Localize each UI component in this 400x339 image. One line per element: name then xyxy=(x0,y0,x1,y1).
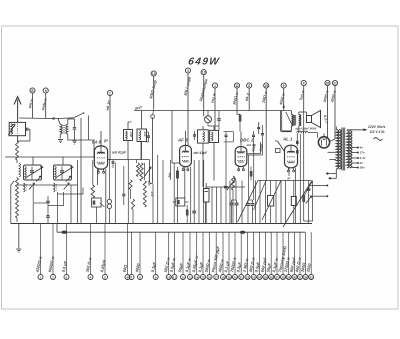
wire plate up xyxy=(100,131,102,146)
electrolytic E1 xyxy=(203,189,209,203)
terminal bottom 2 xyxy=(51,275,56,280)
electrolytic pair 1 xyxy=(229,202,233,204)
wire xyxy=(16,218,18,222)
svg-text:27: 27 xyxy=(275,275,279,279)
T1 top leads xyxy=(53,119,61,125)
diode plates xyxy=(237,151,239,153)
output transformer T4 xyxy=(292,115,294,127)
padder coil left xyxy=(24,183,26,192)
antenna xyxy=(17,100,19,122)
diagonal to transformer xyxy=(286,112,293,126)
svg-text:DBC 1: DBC 1 xyxy=(240,137,254,142)
tuning gang C1 xyxy=(24,165,42,180)
terminal bottom 24 xyxy=(257,275,262,280)
terminal 3 top xyxy=(185,68,190,73)
terminal 1 top xyxy=(212,83,217,88)
IF transformer T3 primary xyxy=(198,130,209,143)
coupling coil T1 secondary xyxy=(66,124,68,134)
cap on 187 xyxy=(224,186,228,189)
T1 bottom route xyxy=(68,134,94,157)
capacitor C9 xyxy=(217,118,221,120)
terminal bottom 31 xyxy=(298,275,303,280)
electrolytic E2 xyxy=(268,196,274,207)
switch S3 xyxy=(145,167,152,177)
terminal bottom 28 xyxy=(281,275,286,280)
terminal bottom 32 xyxy=(303,275,308,280)
svg-text:10: 10 xyxy=(167,275,171,279)
svg-text:4v: 4v xyxy=(359,146,364,150)
grid leak xyxy=(265,129,267,143)
grid resistor pair xyxy=(280,111,282,132)
svg-text:8: 8 xyxy=(248,84,250,88)
AVC wire right xyxy=(247,153,261,155)
grid line xyxy=(5,156,94,158)
switch left xyxy=(11,181,14,185)
terminal bottom 12 xyxy=(181,275,186,280)
wires to speaker xyxy=(299,111,307,113)
wires IF1 xyxy=(127,122,129,130)
oscillator coil Lc xyxy=(143,181,146,207)
svg-text:23: 23 xyxy=(252,275,256,279)
svg-text:.030: .030 xyxy=(129,132,133,138)
wire antenna row xyxy=(19,117,52,120)
diagonal wires xyxy=(238,181,259,223)
grid wire diagonal xyxy=(278,141,285,152)
svg-text:4v: 4v xyxy=(359,161,364,165)
svg-text:25: 25 xyxy=(264,275,268,279)
terminal bottom 11 xyxy=(172,275,177,280)
svg-text:6,3v: 6,3v xyxy=(360,156,366,160)
wire xyxy=(17,136,19,141)
terminal 4 top xyxy=(301,80,306,85)
plate line right xyxy=(108,159,150,161)
connector on wire 12 xyxy=(151,115,155,119)
mains lead xyxy=(335,127,337,130)
terminal bottom 20 xyxy=(233,275,238,280)
svg-text:9: 9 xyxy=(283,84,285,88)
terminal 15 top xyxy=(264,83,269,88)
cap mid xyxy=(122,193,125,195)
tone pot xyxy=(302,195,305,202)
ground xyxy=(59,134,61,138)
paper cap 0.1 xyxy=(176,198,185,206)
arrow through coil xyxy=(8,124,15,135)
wire links xyxy=(32,185,34,224)
svg-text:30: 30 xyxy=(293,275,297,279)
svg-text:4: 4 xyxy=(303,81,305,85)
svg-text:29: 29 xyxy=(287,275,291,279)
bottom stubs above bus xyxy=(40,224,42,233)
wire plate bus xyxy=(258,180,311,182)
fuse xyxy=(62,231,67,234)
IF transformer T3 secondary xyxy=(210,130,219,142)
svg-text:6A 8: 6A 8 xyxy=(92,140,102,145)
svg-text:11: 11 xyxy=(235,84,239,88)
terminal 8 top xyxy=(247,83,252,88)
hairpin loop xyxy=(150,118,153,184)
oscillator coil La xyxy=(136,163,139,177)
speaker xyxy=(307,116,312,123)
switch S2b xyxy=(64,183,69,190)
svg-text:12: 12 xyxy=(152,72,156,76)
connector blob xyxy=(240,231,245,234)
svg-text:33: 33 xyxy=(310,275,314,279)
tone cap bar xyxy=(307,188,311,191)
padder box xyxy=(92,198,102,207)
terminal 21 top xyxy=(332,80,337,85)
svg-text:14: 14 xyxy=(195,275,199,279)
electrolytic E3 xyxy=(291,197,296,206)
capacitor C1 xyxy=(25,128,28,130)
svg-text:110 V 4 St.: 110 V 4 St. xyxy=(370,130,386,134)
antenna coil L1 box xyxy=(9,122,25,135)
svg-text:.110: .110 xyxy=(143,131,147,137)
oscillator coil Lb xyxy=(140,163,143,181)
svg-text:18: 18 xyxy=(221,275,225,279)
cathode resistor R2 xyxy=(176,171,179,179)
switch S2a xyxy=(29,183,35,190)
IF transformer T2 secondary xyxy=(137,129,147,142)
terminal bottom 33 xyxy=(309,275,314,280)
svg-text:11: 11 xyxy=(173,275,177,279)
svg-text:20: 20 xyxy=(326,81,330,85)
right taps xyxy=(313,185,327,187)
svg-text:31: 31 xyxy=(298,275,302,279)
bias resistor xyxy=(250,171,253,177)
terminal B top xyxy=(30,88,35,93)
terminal bottom 29 xyxy=(286,275,291,280)
terminal 20 top xyxy=(325,80,330,85)
svg-text:19: 19 xyxy=(227,275,231,279)
svg-text:17: 17 xyxy=(215,275,219,279)
cap above bus 1 xyxy=(46,200,50,202)
anode dark segment xyxy=(282,130,292,132)
terminal h top xyxy=(43,88,48,93)
switch output wire xyxy=(88,116,90,141)
terminal bottom 26 xyxy=(269,275,274,280)
padder links xyxy=(57,188,83,195)
trimmer T3 right xyxy=(225,132,227,135)
cap above bus 2 xyxy=(46,215,50,217)
svg-text:15: 15 xyxy=(264,84,268,88)
wire xyxy=(77,160,79,224)
svg-text:22: 22 xyxy=(246,275,250,279)
terminal 9 top xyxy=(281,83,286,88)
core xyxy=(341,128,343,171)
coupling cap dark xyxy=(257,127,260,129)
svg-text:dyn 0,8μF 8000: dyn 0,8μF 8000 xyxy=(296,126,317,130)
capacitor C12 xyxy=(262,125,264,133)
terminal bottom 9 xyxy=(153,275,158,280)
wire mid bus xyxy=(205,186,245,188)
svg-text:36v: 36v xyxy=(360,166,365,170)
svg-text:h: h xyxy=(45,89,47,93)
svg-text:.030: .030 xyxy=(147,180,151,186)
V1 pins down xyxy=(97,169,99,185)
terminal bottom 18 xyxy=(221,275,226,280)
svg-text:220V 50c/s: 220V 50c/s xyxy=(367,125,385,129)
wire verticals mid xyxy=(92,160,94,185)
coil seg1 xyxy=(129,180,132,190)
svg-text:2: 2 xyxy=(109,91,111,95)
capacitor C2 xyxy=(74,119,76,127)
wire grid xyxy=(93,156,95,158)
padder coil right xyxy=(54,183,56,192)
resistor R3 xyxy=(239,115,242,122)
volume pot xyxy=(231,176,234,190)
terminal bottom 6 xyxy=(125,275,130,280)
ground left xyxy=(18,224,20,249)
wires gang xyxy=(32,157,34,165)
arrow terminal 9 xyxy=(283,104,285,108)
svg-text:15: 15 xyxy=(201,275,205,279)
rectifier tube AZ1 xyxy=(319,137,330,148)
svg-text:del 41μF: del 41μF xyxy=(194,151,209,155)
gang arrow small 2 xyxy=(66,176,71,181)
terminal 11 top xyxy=(234,83,239,88)
terminal bottom 5 xyxy=(103,275,108,280)
svg-text:649W: 649W xyxy=(188,57,221,68)
svg-text:21: 21 xyxy=(240,275,244,279)
svg-text:28: 28 xyxy=(281,275,285,279)
terminal bottom 27 xyxy=(275,275,280,280)
svg-text:AF 3: AF 3 xyxy=(177,138,188,143)
terminal bottom 22 xyxy=(245,275,250,280)
terminal bottom 17 xyxy=(214,275,219,280)
terminal bottom 19 xyxy=(227,275,232,280)
cap blobs beside V4 xyxy=(296,133,298,146)
coupling coil T1 primary xyxy=(60,124,62,134)
capacitor near V1 xyxy=(112,161,115,163)
taps xyxy=(352,147,358,149)
terminal bottom 14 xyxy=(194,275,199,280)
wire top bus xyxy=(134,110,291,112)
capacitor C11 xyxy=(253,131,255,135)
band switch T1 xyxy=(74,113,83,117)
wires rect xyxy=(326,138,328,140)
svg-text:21: 21 xyxy=(333,81,337,85)
svg-text:ant 41μF: ant 41μF xyxy=(112,151,127,155)
svg-text:.110: .110 xyxy=(150,191,154,197)
svg-text:26: 26 xyxy=(270,275,274,279)
terminal bottom 3 xyxy=(64,275,69,280)
cathode resistor V1 xyxy=(91,185,94,198)
terminal bottom 8 xyxy=(138,275,143,280)
terminal bottom 7 xyxy=(129,275,134,280)
svg-text:32: 32 xyxy=(304,275,308,279)
secondary xyxy=(347,131,349,169)
bus line 2 xyxy=(57,231,305,233)
wire xyxy=(19,117,53,120)
terminal bottom 4 xyxy=(88,275,93,280)
coil L2 tapped xyxy=(16,141,19,160)
terminal bottom 13 xyxy=(188,275,193,280)
field coil xyxy=(297,131,309,133)
svg-text:12: 12 xyxy=(181,275,185,279)
electrolytic pair 2 xyxy=(246,203,250,205)
terminal 2 top xyxy=(107,90,112,95)
capacitor xyxy=(192,210,196,212)
terminal bottom 30 xyxy=(292,275,297,280)
bus line 1 xyxy=(11,223,312,225)
trimmer cap T2 xyxy=(148,132,150,136)
terminal 12 top xyxy=(151,71,156,76)
terminal bottom 10 xyxy=(166,275,171,280)
terminal 10 top xyxy=(201,70,206,75)
svg-text:24: 24 xyxy=(258,275,262,279)
rectifier to transformer links xyxy=(328,151,337,153)
electrolytic circles xyxy=(107,199,111,203)
svg-text:AL 1: AL 1 xyxy=(282,136,293,141)
gang arrow small 1 xyxy=(36,176,41,181)
trimmer T3 left xyxy=(194,131,196,134)
coil seg2 xyxy=(132,199,135,210)
svg-text:3: 3 xyxy=(187,69,189,73)
svg-text:20: 20 xyxy=(233,275,237,279)
svg-text:10: 10 xyxy=(202,71,206,75)
pilot lamp xyxy=(205,116,212,123)
IF transformer T2 primary xyxy=(124,130,133,141)
terminal bottom 21 xyxy=(239,275,244,280)
wires IF2 xyxy=(202,126,204,130)
svg-text:gn: gn xyxy=(103,139,108,143)
svg-text:1: 1 xyxy=(214,84,216,88)
ground small xyxy=(73,140,77,142)
grid feed xyxy=(171,111,173,164)
heater arrows xyxy=(328,169,336,174)
terminal bottom 15 xyxy=(201,275,206,280)
terminal bottom 1 xyxy=(38,275,43,280)
cap box left of V4 xyxy=(276,149,281,153)
svg-text:17v: 17v xyxy=(360,151,365,155)
terminal bottom 25 xyxy=(263,275,268,280)
terminal bottom 16 xyxy=(207,275,212,280)
power transformer primary xyxy=(336,130,338,170)
svg-text:13: 13 xyxy=(188,275,192,279)
resistor dark xyxy=(186,210,189,216)
svg-text:16: 16 xyxy=(208,275,212,279)
wire AVC xyxy=(247,154,262,156)
tuning gang C2 xyxy=(54,165,72,180)
terminal bottom 23 xyxy=(251,275,256,280)
